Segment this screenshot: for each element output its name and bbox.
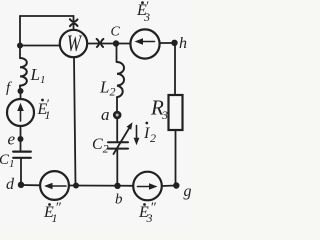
svg-text:h: h xyxy=(179,35,187,52)
capacitor C1 xyxy=(13,152,31,158)
label E3'' xyxy=(138,201,156,226)
svg-text:a: a xyxy=(101,105,110,124)
node b xyxy=(114,183,120,189)
node e xyxy=(18,136,24,142)
inductor L1 xyxy=(20,58,27,86)
svg-text:″: ″ xyxy=(150,201,156,216)
label I2 xyxy=(143,122,156,145)
wire right vertical lower xyxy=(175,130,177,186)
wire C1 to d xyxy=(20,159,22,185)
break mark X right of wattmeter xyxy=(97,39,104,47)
wire E3'' to g xyxy=(162,185,176,188)
wire wattmeter right lead xyxy=(87,43,130,45)
svg-text:e: e xyxy=(8,130,16,149)
wire right vertical upper xyxy=(174,43,176,95)
label R3 xyxy=(150,96,168,123)
wire wattmeter top lead xyxy=(73,16,75,31)
svg-text:C: C xyxy=(111,25,121,40)
wire E3' to h xyxy=(160,42,175,44)
svg-text:′: ′ xyxy=(46,96,49,111)
wire d to E1'' xyxy=(21,184,40,186)
wire left vertical upper xyxy=(19,16,21,58)
wire L1 to f xyxy=(19,86,21,92)
wire L2 to a xyxy=(116,97,118,112)
node h xyxy=(171,40,177,46)
wire e to C1 xyxy=(20,139,22,150)
resistor R3 xyxy=(169,95,183,130)
node g xyxy=(173,182,179,188)
source E1' xyxy=(7,99,34,126)
svg-text:2: 2 xyxy=(150,131,156,145)
svg-text:′: ′ xyxy=(146,0,149,13)
svg-text:b: b xyxy=(115,192,123,208)
source E3'' xyxy=(133,172,162,201)
svg-text:″: ″ xyxy=(55,201,61,216)
wire E1'' to b xyxy=(69,185,133,187)
label E1' xyxy=(37,96,51,122)
break mark X above wattmeter xyxy=(70,19,78,26)
source E3' xyxy=(130,29,159,58)
node a (open) xyxy=(114,112,120,118)
wire wattmeter bottom lead xyxy=(74,57,76,185)
capacitor C2 variable xyxy=(108,142,128,148)
wire wattmeter left lead xyxy=(20,45,61,47)
wire C2 to b xyxy=(116,150,118,186)
node f xyxy=(18,88,24,94)
label E3' xyxy=(136,0,150,24)
node junction left xyxy=(17,43,23,49)
svg-text:g: g xyxy=(184,183,192,200)
node junction wattmeter bottom xyxy=(73,183,79,189)
svg-text:d: d xyxy=(6,176,15,193)
inductor L2 xyxy=(117,62,124,97)
svg-text:3: 3 xyxy=(161,108,168,122)
wire top horizontal xyxy=(20,15,74,17)
label E1'' xyxy=(43,201,61,226)
node c xyxy=(113,40,119,46)
wire f to E1' xyxy=(20,91,22,100)
node d xyxy=(18,182,24,188)
svg-text:I: I xyxy=(143,125,150,142)
wire E1' to e xyxy=(20,126,22,139)
wire c branch upper xyxy=(116,44,118,63)
wattmeter W xyxy=(60,30,87,57)
svg-text:W: W xyxy=(67,32,83,57)
arrow of variable capacitor C2 xyxy=(114,122,133,154)
source E1'' xyxy=(40,171,69,200)
wire a to C2 xyxy=(116,118,118,141)
current arrow I2 xyxy=(134,126,140,146)
